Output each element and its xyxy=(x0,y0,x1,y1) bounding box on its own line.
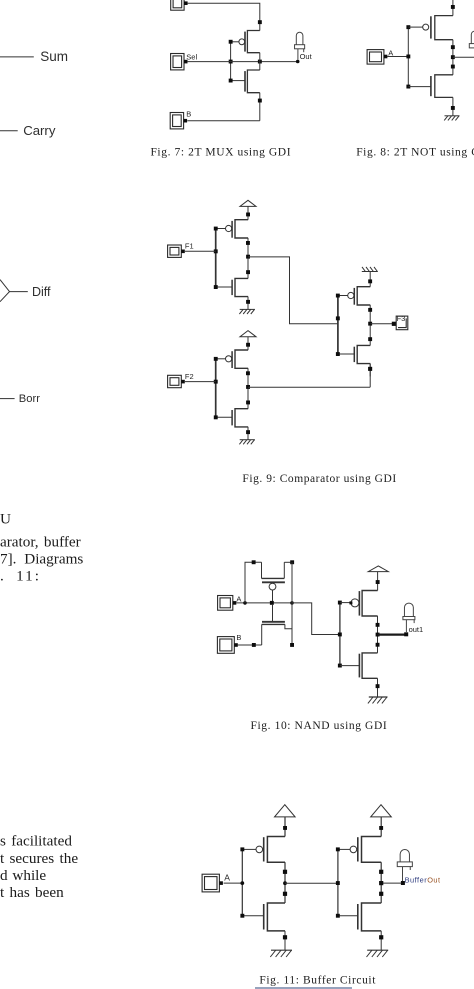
vdd supply (fig10 inverter) xyxy=(368,566,388,591)
vdd supply (F2 stage) xyxy=(240,331,256,350)
wire output to probe xyxy=(453,56,474,58)
svg-text:Fig. 7: 2T MUX using GDI: Fig. 7: 2T MUX using GDI xyxy=(150,146,291,158)
gate bus F3s xyxy=(337,296,339,355)
node input F2 xyxy=(214,380,218,384)
supply hatch symbol (F3s stage) xyxy=(362,267,378,287)
node below pmos xyxy=(451,45,455,49)
node out1 pin xyxy=(404,632,408,636)
wire stage2 out to BufferOut xyxy=(381,882,401,884)
node gate nmos xyxy=(229,79,233,83)
node below pmos F3s xyxy=(368,308,372,312)
node above nmos U2 xyxy=(379,892,383,896)
node nmos source pin xyxy=(252,643,256,647)
svg-text:Diff: Diff xyxy=(32,285,51,299)
pmos M1 (MUX) xyxy=(231,31,260,53)
figure 11: Buffer Circuit xyxy=(202,805,441,987)
nmos F3sb xyxy=(338,345,370,363)
input port B xyxy=(170,113,187,129)
node above ground F1 xyxy=(246,300,250,304)
node above nmos xyxy=(451,65,455,69)
svg-text:F2: F2 xyxy=(185,372,194,381)
nmos U1b xyxy=(242,903,285,931)
wire nmos source to ground xyxy=(377,678,379,697)
node gate pmos U2 xyxy=(336,847,340,851)
node gate pmos F3s xyxy=(336,294,340,298)
node supply pin F2 xyxy=(246,343,250,347)
gate output tip (cropped) xyxy=(0,280,10,302)
wire nand node to inverter bus xyxy=(292,603,340,635)
wire F2 output to F3-stage bottom xyxy=(248,386,370,388)
led probe (clipped at edge) xyxy=(469,31,474,56)
node vdd pin U2 xyxy=(379,826,383,830)
node output F3s xyxy=(368,322,372,326)
output port F3 xyxy=(396,316,408,330)
wire stage1 out to stage2 bus xyxy=(285,882,338,884)
node above nmos F2 xyxy=(246,401,250,405)
pmos M1 (horizontal) xyxy=(262,562,285,601)
node output F1 xyxy=(246,255,250,259)
svg-text:d while: d while xyxy=(0,867,46,884)
svg-text:A: A xyxy=(236,594,241,603)
node input F1 xyxy=(214,249,218,253)
input port B xyxy=(217,637,237,654)
svg-text:t secures the: t secures the xyxy=(0,850,78,867)
node stage2 output xyxy=(379,881,383,885)
ground (U1) xyxy=(270,950,292,957)
node A-wire left xyxy=(243,601,247,605)
wire drain rail xyxy=(259,53,261,70)
node gate nmos F1 xyxy=(214,285,218,289)
wire mid rail F3s xyxy=(369,305,371,345)
node above ground F3s xyxy=(368,367,372,371)
pmos U2a xyxy=(338,837,381,863)
gate bus F2 xyxy=(215,359,217,418)
ground (F2 stage) xyxy=(239,440,254,445)
nmos M2 (NOT) xyxy=(408,75,453,98)
svg-text:Sum: Sum xyxy=(40,49,68,64)
input port (top, cut off) xyxy=(171,0,188,10)
svg-text:Fig. 11: Buffer Circuit: Fig. 11: Buffer Circuit xyxy=(259,974,376,986)
node stage2 input xyxy=(336,881,340,885)
node gate pmos xyxy=(406,25,410,29)
pmos F1a xyxy=(216,220,248,238)
node gate nmos F2 xyxy=(214,415,218,419)
input port A xyxy=(367,50,387,65)
wire mid rail F1 xyxy=(247,238,249,278)
figure 8: 2T NOT using GDI xyxy=(356,0,474,158)
node below pmos xyxy=(376,623,380,627)
node above ground U2 xyxy=(379,935,383,939)
wire Borr xyxy=(0,398,15,400)
node input F3s xyxy=(336,316,340,320)
node BufferOut pin xyxy=(401,881,405,885)
svg-text:. 11:: . 11: xyxy=(0,568,41,585)
pmos F3sa xyxy=(338,287,370,305)
wire A bus horizontal xyxy=(236,602,292,604)
wire nmos source to bottom F2 xyxy=(247,427,249,440)
node above ground xyxy=(376,684,380,688)
left column: half-adder outputs (cropped) xyxy=(0,49,68,405)
node supply pin F1 xyxy=(246,213,250,217)
svg-text:s facilitated: s facilitated xyxy=(0,832,72,849)
wire source rail to B xyxy=(259,93,261,121)
node gates xyxy=(270,601,274,605)
node gate pmos F1 xyxy=(214,227,218,231)
nmos U2b xyxy=(338,903,381,931)
wire nmos source to ground U2 xyxy=(380,931,382,950)
node pmos drain pin xyxy=(290,560,294,564)
vdd supply (F1 stage) xyxy=(240,200,256,219)
node above ground xyxy=(451,106,455,110)
node gate pmos xyxy=(229,40,233,44)
svg-text:7]. Diagrams: 7]. Diagrams xyxy=(0,551,83,568)
node inv input xyxy=(338,633,342,637)
wire F3-stage nmos to F2 output xyxy=(369,364,371,388)
wire B to nmos source xyxy=(237,644,261,646)
wire Sum xyxy=(0,56,34,58)
svg-text:Carry: Carry xyxy=(23,123,56,138)
node below pmos F2 xyxy=(246,371,250,375)
wire A to stage1 bus xyxy=(224,882,243,884)
bottom edge artifact bar xyxy=(255,987,352,989)
node inv gate pmos xyxy=(338,601,342,605)
led probe Out xyxy=(295,32,305,60)
svg-text:U: U xyxy=(0,510,11,527)
wire A up-over to pmos source xyxy=(245,562,262,603)
input port A xyxy=(218,596,237,611)
wire vdd rail from top edge xyxy=(452,0,454,16)
wire F1 to bus xyxy=(185,250,216,252)
ground (fig10) xyxy=(368,697,388,703)
wire inv output to probe (thick) xyxy=(378,633,405,635)
wire F1 output to F3-stage gate bus xyxy=(248,257,338,324)
svg-text:F1: F1 xyxy=(185,242,194,251)
node on rail xyxy=(258,20,262,24)
pmos M3 (inverter) xyxy=(340,591,378,617)
node gate pmos U1 xyxy=(240,847,244,851)
wire nmos source to ground xyxy=(452,97,454,115)
wire nmos source to bottom F3s xyxy=(369,364,371,377)
nmos M2 (horizontal) xyxy=(262,605,292,645)
node on B rail xyxy=(258,99,262,103)
node bottom of output vertical xyxy=(290,643,294,647)
node inv gate nmos xyxy=(338,664,342,668)
input port Sel xyxy=(171,54,188,70)
pmos M1 (NOT) xyxy=(408,16,453,40)
svg-text:arator, buffer: arator, buffer xyxy=(0,534,81,551)
wire output vertical xyxy=(291,562,293,645)
figure 9: Comparator using GDI xyxy=(168,200,408,485)
svg-text:Fig. 9: Comparator using GDI: Fig. 9: Comparator using GDI xyxy=(242,473,396,485)
gate bus (inverter) xyxy=(339,603,341,666)
wire B to rail xyxy=(187,120,259,122)
ground (F1 stage) xyxy=(239,309,254,314)
node output xyxy=(451,55,455,59)
node gate nmos U2 xyxy=(336,914,340,918)
figure 7: 2T MUX using GDI xyxy=(150,0,312,158)
node A junction xyxy=(240,881,244,885)
pmos U1a xyxy=(242,837,285,863)
gate bus wire xyxy=(230,42,232,81)
node A xyxy=(406,55,410,59)
gate bus U2 xyxy=(337,849,339,915)
wire mid rail U1 xyxy=(284,862,286,903)
wire F2 to bus xyxy=(185,381,216,383)
node above ground F2 xyxy=(246,430,250,434)
node pmos source pin xyxy=(252,560,256,564)
input port A xyxy=(202,874,223,892)
node above nmos F1 xyxy=(246,270,250,274)
figure 10: NAND using GDI xyxy=(217,560,423,732)
node gate pmos F2 xyxy=(214,357,218,361)
node gate nmos xyxy=(406,85,410,89)
vdd supply (U1) xyxy=(275,805,296,837)
node output F2 xyxy=(246,385,250,389)
node stage1 output xyxy=(283,881,287,885)
svg-text:B: B xyxy=(236,633,241,642)
node below pmos U1 xyxy=(283,870,287,874)
wire Diff xyxy=(10,291,28,293)
node vdd pin xyxy=(376,580,380,584)
wire top-input to PMOS source rail xyxy=(188,3,260,30)
node supply pin F3s xyxy=(368,279,372,283)
svg-text:B: B xyxy=(186,110,191,119)
node below pmos F1 xyxy=(246,241,250,245)
left column: body text fragments (cropped at margin) xyxy=(0,510,83,901)
node above nmos xyxy=(376,643,380,647)
ground (U2) xyxy=(367,950,389,957)
gate bus wire xyxy=(407,27,409,87)
wire inv mid rail xyxy=(377,616,379,653)
svg-text:Out: Out xyxy=(300,52,313,61)
svg-text:Fig. 8: 2T NOT using GDI: Fig. 8: 2T NOT using GDI xyxy=(356,146,474,158)
wire F3 output xyxy=(370,323,392,325)
svg-text:Fig. 10: NAND using GDI: Fig. 10: NAND using GDI xyxy=(251,720,388,732)
node mux output xyxy=(258,60,262,64)
node above ground U1 xyxy=(283,935,287,939)
input port F1 xyxy=(168,245,185,257)
node F3 pin xyxy=(392,322,396,326)
nmos M2 (MUX) xyxy=(231,70,260,93)
wire pmos drain top xyxy=(284,561,292,563)
input port F2 xyxy=(168,375,185,387)
svg-text:BufferOut: BufferOut xyxy=(405,875,441,884)
svg-text:Borr: Borr xyxy=(19,393,40,405)
wire mid rail F2 xyxy=(247,368,249,408)
svg-text:out1: out1 xyxy=(409,625,424,634)
wire nmos source to bottom F1 xyxy=(247,297,249,310)
node gate nmos U1 xyxy=(240,914,244,918)
node above nmos F3s xyxy=(368,337,372,341)
wire nmos source to ground U1 xyxy=(284,931,286,950)
node F3-stage nmos source xyxy=(368,367,372,371)
wire mid rail U2 xyxy=(380,862,382,903)
nmos F2b xyxy=(216,409,248,427)
wire A to gate bus xyxy=(387,56,408,58)
node gate nmos F3s xyxy=(336,352,340,356)
wire Carry xyxy=(0,130,18,132)
svg-text:F3: F3 xyxy=(397,314,406,323)
node top rail xyxy=(451,5,455,9)
svg-text:A: A xyxy=(224,872,230,882)
node vdd pin U1 xyxy=(283,826,287,830)
node Out junction xyxy=(296,60,300,64)
node inv output xyxy=(376,633,380,637)
led probe out1 xyxy=(403,603,415,632)
led probe BufferOut xyxy=(397,849,412,881)
gate bus U1 xyxy=(241,849,243,915)
node sel xyxy=(229,60,233,64)
svg-text:t has been: t has been xyxy=(0,884,64,901)
nmos M4 (inverter) xyxy=(340,653,378,678)
pmos F2a xyxy=(216,350,248,368)
nmos F1b xyxy=(216,278,248,296)
wire Sel to output node xyxy=(188,61,298,63)
wire drain rail xyxy=(452,40,454,75)
gate bus F1 xyxy=(215,229,217,288)
node A-wire right junction xyxy=(290,601,294,605)
node below pmos U2 xyxy=(379,870,383,874)
svg-text:Sel: Sel xyxy=(186,52,197,61)
ground xyxy=(444,116,459,121)
node above nmos U1 xyxy=(283,892,287,896)
vdd supply (U2) xyxy=(371,805,392,837)
